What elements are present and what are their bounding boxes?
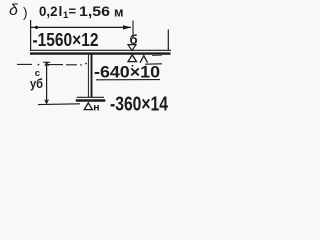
svg-text:0,2: 0,2 bbox=[39, 3, 58, 19]
svg-text:1,56: 1,56 bbox=[79, 3, 110, 19]
svg-text:-640×10: -640×10 bbox=[94, 64, 160, 82]
svg-text:уб: уб bbox=[30, 77, 43, 91]
svg-text:н: н bbox=[93, 101, 99, 113]
svg-text:-1560×12: -1560×12 bbox=[33, 30, 99, 50]
svg-text:): ) bbox=[23, 5, 28, 20]
svg-text:-360×14: -360×14 bbox=[110, 94, 169, 116]
svg-text:δ: δ bbox=[9, 2, 19, 19]
svg-text:l: l bbox=[59, 3, 63, 19]
svg-text:=: = bbox=[69, 4, 77, 19]
svg-text:м: м bbox=[114, 6, 124, 20]
svg-text:б: б bbox=[130, 32, 138, 47]
